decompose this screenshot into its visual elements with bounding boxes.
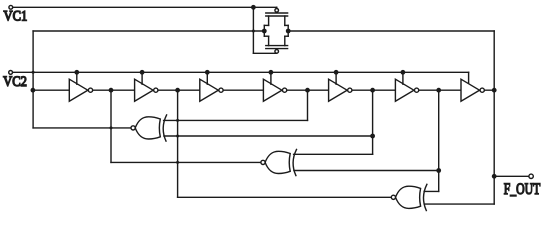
stub inverter U6 xyxy=(402,72,404,84)
node tap2 xyxy=(175,88,180,93)
wire feedback left segment y=31 xyxy=(33,30,264,32)
XNOR gate X3 xyxy=(396,186,421,208)
wire VC2 rail xyxy=(13,71,469,73)
node inverter7 output xyxy=(492,88,497,93)
stub inverter U2 xyxy=(141,72,143,84)
node F_OUT junction xyxy=(492,174,497,179)
node ring input xyxy=(31,88,36,93)
node tap5 xyxy=(370,88,375,93)
inverter U5 xyxy=(329,79,348,101)
wire inverter chain xyxy=(33,89,494,91)
transmission gate NMOS gate bubble xyxy=(275,50,279,54)
wire NMOS gate bottom horizontal xyxy=(253,52,276,54)
wire VC1 top rail xyxy=(13,6,277,8)
stub inverter U1 xyxy=(76,72,78,84)
inverter U7 xyxy=(461,79,480,101)
wire VC2 rail bend into inverter 7 xyxy=(468,72,470,84)
inverter U4 xyxy=(263,79,282,101)
inverter U3 xyxy=(200,79,219,101)
terminal VC1 xyxy=(9,5,13,9)
node transmission gate right xyxy=(286,29,291,34)
node XNOR2 input B junction xyxy=(436,168,441,173)
wire tap1 vertical x=111 xyxy=(110,90,112,162)
terminal F_OUT xyxy=(529,174,533,178)
inverter U2 xyxy=(135,79,154,101)
XNOR gate X2 xyxy=(265,151,290,173)
crossing blobs xyxy=(32,71,35,74)
stub inverter U4 xyxy=(270,72,272,84)
wire VC1 branch vertical to NMOS gate xyxy=(252,7,254,53)
wire XNOR1 input A from tap4 xyxy=(164,119,308,121)
wire XNOR3 input B from output node xyxy=(424,203,494,205)
wire tap4 vertical x=307.5 xyxy=(307,90,309,120)
inverter U6 xyxy=(395,79,414,101)
transmission gate NMOS gate bar xyxy=(266,48,288,50)
wire tap5 vertical x=372.6 xyxy=(372,90,374,154)
node tap1 xyxy=(109,88,114,93)
wire F_OUT xyxy=(494,175,529,177)
wire output vertical x=494 xyxy=(493,31,495,204)
XNOR gate X1 xyxy=(135,117,160,139)
svg-text:VC2: VC2 xyxy=(3,73,27,89)
terminal VC2 xyxy=(9,71,13,75)
wire XNOR1 input B from tap5 xyxy=(164,135,373,137)
stub inverter U5 xyxy=(335,72,337,84)
wire XNOR2 input B from tap6 xyxy=(294,170,439,172)
wire tap6 vertical x=438.7 xyxy=(438,90,440,191)
wire XNOR2 input A from tap5 xyxy=(294,153,373,155)
svg-text:F_OUT: F_OUT xyxy=(504,180,541,198)
wire XNOR3 output to tap2 node xyxy=(178,196,392,198)
wire XNOR1 output to ring input xyxy=(33,127,131,129)
junction VC1 branch xyxy=(251,5,256,10)
transmission gate PMOS gate bubble xyxy=(276,7,278,8)
wire feedback right segment y=31 xyxy=(288,30,494,32)
inverter U1 xyxy=(69,79,88,101)
wire ring input vertical x=33 xyxy=(32,31,34,128)
node tap4 xyxy=(305,88,310,93)
stub inverter U3 xyxy=(206,72,208,84)
transmission gate NMOS channel xyxy=(268,36,270,45)
transmission gate left source/drain column xyxy=(264,24,268,26)
node XNOR1 input B junction xyxy=(370,134,375,139)
wire XNOR2 output to tap1 node xyxy=(111,161,261,163)
svg-text:VC1: VC1 xyxy=(4,7,28,23)
transmission gate right source/drain column xyxy=(285,24,288,26)
node tap6 xyxy=(436,88,441,93)
node transmission gate left xyxy=(262,29,267,34)
transmission gate PMOS gate bar xyxy=(266,12,288,14)
wire tap2 vertical x=177.6 xyxy=(177,90,179,197)
wire XNOR3 input A from tap6 xyxy=(424,190,439,192)
transmission gate PMOS channel xyxy=(266,15,288,17)
